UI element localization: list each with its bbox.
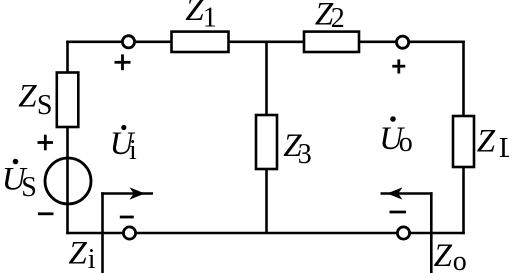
svg-text:Z: Z — [69, 236, 88, 272]
minus sign below source — [38, 212, 54, 215]
wire Z3 to bottom — [265, 169, 268, 233]
output port marker vertical line (Zo) — [430, 192, 433, 273]
label Uo (output voltage) — [379, 116, 412, 158]
svg-text:i: i — [129, 135, 137, 166]
wire bottom-right horizontal — [410, 232, 465, 235]
svg-text:L: L — [499, 133, 509, 164]
input port arrow line — [101, 192, 153, 195]
label Ui (input voltage) — [110, 125, 137, 166]
source US circle — [45, 158, 91, 204]
wire terminal to Z1 — [135, 40, 172, 43]
terminal node c (bottom-left open circle) — [123, 227, 135, 239]
output port arrowhead (points left) — [387, 187, 403, 199]
wire bottom-left horizontal — [66, 232, 123, 235]
terminal node a (top-left open circle) — [122, 36, 134, 48]
svg-text:o: o — [399, 127, 413, 158]
label Zo — [434, 238, 467, 273]
wire right branch upper — [462, 41, 465, 117]
output port arrow line — [381, 192, 433, 195]
svg-text:2: 2 — [331, 3, 345, 34]
impedance Z3 box — [256, 115, 277, 169]
svg-text:S: S — [37, 90, 53, 121]
terminal node b (top-right open circle) — [397, 36, 409, 48]
svg-text:Z: Z — [18, 78, 37, 114]
minus sign above bottom-right terminal — [390, 211, 407, 214]
svg-text:Z: Z — [185, 0, 204, 28]
input port arrowhead (points right) — [130, 187, 146, 199]
svg-text:3: 3 — [298, 139, 312, 170]
plus sign below top-left terminal — [115, 61, 131, 64]
label Z2 — [315, 0, 345, 34]
plus sign above source — [38, 141, 54, 144]
resistor Z2 box — [304, 32, 359, 52]
wire Z1 to Z2 — [229, 40, 305, 43]
wire bottom middle horizontal — [136, 232, 398, 235]
label US (source voltage) — [2, 159, 37, 203]
wire Z2 to terminal — [359, 40, 397, 43]
label ZS — [18, 78, 52, 121]
svg-text:Z: Z — [477, 124, 496, 160]
label Z1 — [185, 0, 216, 34]
svg-text:i: i — [88, 244, 96, 273]
resistor Z1 box — [172, 32, 229, 52]
wire ZL to bottom — [462, 167, 465, 234]
wire top-right horizontal — [409, 40, 465, 43]
wire top-left horizontal — [66, 40, 122, 43]
wire middle branch upper — [265, 42, 268, 115]
impedance ZS box — [57, 73, 79, 128]
minus sign above bottom-left terminal — [120, 216, 134, 219]
svg-text:o: o — [453, 246, 467, 273]
svg-text:1: 1 — [203, 3, 217, 34]
wire ZS through source to bottom — [66, 127, 69, 234]
svg-text:Z: Z — [434, 238, 453, 273]
wire left branch upper — [66, 41, 69, 73]
input port marker vertical line (Zi) — [101, 192, 104, 273]
label Z3 — [283, 128, 311, 170]
plus sign below top-right terminal — [392, 65, 405, 68]
terminal node d (bottom-right open circle) — [397, 227, 409, 239]
label ZL — [477, 124, 509, 164]
impedance ZL box — [453, 116, 474, 167]
label Zi — [69, 236, 96, 273]
svg-text:S: S — [21, 172, 37, 203]
